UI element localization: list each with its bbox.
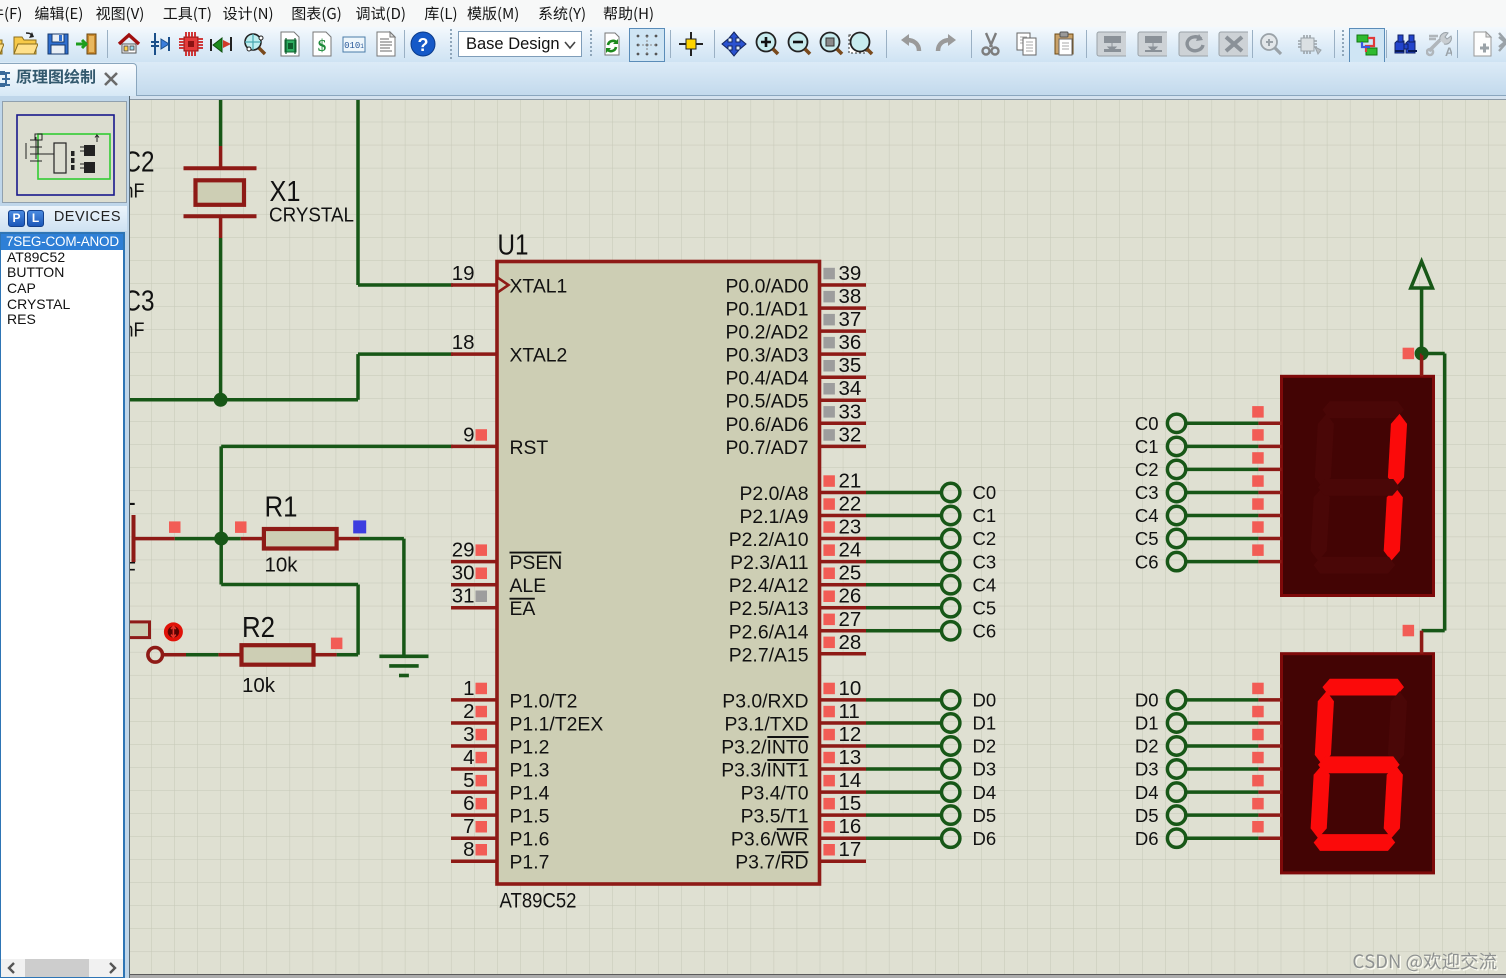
pin 19 (XTAL1) [451,283,497,287]
svg-text:26: 26 [839,585,862,608]
pin 17 [820,859,867,863]
resistor R2 [314,653,337,657]
wire + terminal C2 (chip side) [866,537,942,541]
svg-text:XTAL2: XTAL2 [510,345,568,367]
wire + terminal C5 (chip side) [866,606,942,610]
wire + terminal D5 (chip side) [866,813,942,817]
node: crystal / XTAL2 junction [214,393,228,407]
svg-text:C5: C5 [1135,528,1159,549]
svg-text:P2.4/A12: P2.4/A12 [729,575,809,597]
svg-text:16: 16 [839,815,862,838]
svg-text:P2.7/A15: P2.7/A15 [729,644,809,666]
svg-text:12: 12 [839,723,862,746]
svg-text:38: 38 [839,285,862,308]
pin 4 (P1.3) [451,767,497,771]
pin 30 (ALE) [451,583,497,587]
svg-text:nF: nF [124,180,145,203]
overline EA [510,598,535,600]
pin 21 [820,491,867,495]
wire + terminal D3 (chip side) [866,767,942,771]
pin 11 [820,721,867,725]
svg-text:C6: C6 [1135,551,1159,572]
pin 36 [820,352,867,356]
svg-text:C2: C2 [973,528,997,549]
svg-text:27: 27 [839,608,862,631]
pin 38 [820,306,867,310]
svg-text:11: 11 [839,700,860,723]
svg-text:P2.0/A8: P2.0/A8 [740,483,809,505]
svg-text:D3: D3 [1135,759,1159,780]
wire: net XTAL1 vertical from top edge [356,96,360,285]
pin 32 [820,445,867,449]
svg-text:D0: D0 [1135,690,1159,711]
svg-text:25: 25 [839,562,862,585]
svg-text:RST: RST [510,437,549,459]
svg-text:P0.7/AD7: P0.7/AD7 [726,437,809,459]
svg-text:10k: 10k [265,554,299,577]
svg-text:21: 21 [839,470,862,493]
svg-text:D2: D2 [973,736,997,757]
wire + terminal D4 (chip side) [866,790,942,794]
wire: power to DS2 [1422,352,1445,356]
svg-text:24: 24 [839,539,862,562]
svg-text:7: 7 [463,815,474,838]
svg-text:P0.6/AD6: P0.6/AD6 [726,414,809,436]
pin 39 [820,283,867,287]
svg-text:19: 19 [452,262,475,285]
svg-text:15: 15 [839,792,862,815]
pin 16 [820,836,867,840]
pin 22 [820,514,867,518]
tab bar [0,62,1506,96]
svg-text:8: 8 [463,838,474,861]
svg-text:P2.2/A10: P2.2/A10 [729,529,809,551]
pin 18 (XTAL2) [451,352,497,356]
menu bar [0,0,1506,27]
svg-text:C5: C5 [973,597,997,618]
overline PSEN [510,552,562,554]
svg-text:D1: D1 [973,713,997,734]
svg-text:30: 30 [452,562,475,585]
wire: RST junction down/right to R2 [219,539,223,585]
svg-text:uF: uF [112,558,136,581]
svg-text:9: 9 [463,423,474,446]
svg-text:32: 32 [839,423,862,446]
overline INT0 [767,736,808,738]
svg-text:ALE: ALE [510,575,547,597]
pin 13 [820,767,867,771]
pin 24 [820,560,867,564]
wire + terminal C6 (chip side) [866,629,942,633]
pin 27 [820,629,867,633]
wire: RST net from pin 9 [221,445,453,449]
pin 33 [820,422,867,426]
wire: C1 to RST junction [175,537,241,541]
svg-text:AT89C52: AT89C52 [500,890,577,913]
power terminal (up arrow) [1411,262,1433,289]
node: RST junction [214,532,228,546]
svg-text:3: 3 [463,723,474,746]
svg-text:P1.6: P1.6 [510,829,550,851]
pin 15 [820,813,867,817]
pin 25 [820,583,867,587]
toolbar [0,27,1506,62]
svg-text:23: 23 [839,516,862,539]
svg-text:EA: EA [510,598,536,620]
svg-text:6: 6 [463,792,474,815]
wire: R1 to ground [360,537,404,541]
schematic editor canvas [129,96,1506,99]
pin 9 (RST) [451,445,497,449]
pin 10 [820,698,867,702]
svg-text:29: 29 [452,539,475,562]
resistor R1 [235,521,247,533]
svg-text:D5: D5 [973,805,997,826]
pin 8 (P1.7) [451,859,497,863]
pin 5 (P1.4) [451,790,497,794]
svg-text:28: 28 [839,631,862,654]
svg-text:P3.7/RD: P3.7/RD [735,852,808,874]
svg-text:P1.7: P1.7 [510,852,550,874]
wire: XTAL1 horizontal into pin 19 [358,283,453,287]
svg-text:5: 5 [463,769,474,792]
svg-text:33: 33 [839,400,862,423]
terminal (input) at R2 left [164,653,187,657]
svg-text:P3.1/TXD: P3.1/TXD [724,714,808,736]
svg-text:PSEN: PSEN [510,552,563,574]
pin: DS2 common anode [1420,631,1424,654]
wire: crystal top net vertical from top edge [219,96,223,146]
7-segment display DS1 (digit 1) [1282,376,1434,595]
overline WR [777,828,809,830]
svg-text:P0.4/AD4: P0.4/AD4 [726,368,809,390]
svg-text:P1.1/T2EX: P1.1/T2EX [510,714,604,736]
button (partially hidden at edge) [118,622,150,638]
svg-text:P3.2/INT0: P3.2/INT0 [721,737,809,759]
svg-text:P2.1/A9: P2.1/A9 [740,506,809,528]
wire: crystal bottom to junction [219,238,223,400]
wire + terminal D6 (chip side) [866,836,942,840]
svg-text:D6: D6 [1135,828,1159,849]
svg-text:nF: nF [124,319,145,342]
svg-text:1: 1 [463,677,474,700]
svg-text:P1.2: P1.2 [510,737,550,759]
svg-text:D5: D5 [1135,805,1159,826]
wire + terminal C4 (chip side) [866,583,942,587]
pin 7 (P1.6) [451,836,497,840]
svg-text:D1: D1 [1135,713,1159,734]
overline RD [781,851,808,853]
wire: R2 to terminal [186,653,218,657]
svg-text:D2: D2 [1135,736,1159,757]
svg-text:C3: C3 [1135,482,1159,503]
pin 37 [820,329,867,333]
pin 3 (P1.2) [451,744,497,748]
wire: horizontal net to left edge [129,398,358,402]
svg-text:31: 31 [452,585,475,608]
svg-text:P3.0/RXD: P3.0/RXD [722,690,808,712]
svg-text:R2: R2 [242,612,275,644]
pin 31 (EA) [451,606,497,610]
svg-text:P3.3/INT1: P3.3/INT1 [721,760,808,782]
svg-text:P2.3/A11: P2.3/A11 [730,552,808,574]
wire + terminal D2 (chip side) [866,744,942,748]
op-amp/mcu U1 AT89C52 body [497,262,820,885]
svg-text:C2: C2 [1135,459,1159,480]
svg-text:17: 17 [839,838,862,861]
svg-text:C3: C3 [973,551,997,572]
svg-text:P3.4/T0: P3.4/T0 [741,783,809,805]
pin 6 (P1.5) [451,813,497,817]
svg-text:P1.3: P1.3 [510,760,550,782]
svg-text:P0.5/AD5: P0.5/AD5 [726,391,809,413]
svg-text:C6: C6 [973,621,997,642]
svg-text:P1.0/T2: P1.0/T2 [510,690,578,712]
svg-text:C1: C1 [973,505,997,526]
svg-text:39: 39 [839,262,862,285]
pin 12 [820,744,867,748]
svg-text:P0.1/AD1: P0.1/AD1 [726,299,809,321]
svg-text:XTAL1: XTAL1 [510,276,568,298]
svg-text:P0.0/AD0: P0.0/AD0 [726,276,809,298]
svg-text:D0: D0 [973,690,997,711]
svg-text:P3.5/T1: P3.5/T1 [741,806,809,828]
wire: up and into pin 18 XTAL2 [356,354,360,400]
svg-text:13: 13 [839,746,862,769]
pin 14 [820,790,867,794]
svg-text:10: 10 [839,677,862,700]
svg-text:37: 37 [839,308,862,331]
crystal X1 [219,146,223,169]
bottom scrollbar strip [129,974,1506,978]
svg-text:D4: D4 [1135,782,1159,803]
svg-text:D4: D4 [973,782,997,803]
svg-text:R1: R1 [265,492,298,524]
svg-text:C1: C1 [1135,436,1159,457]
wire + terminal C1 (chip side) [866,514,942,518]
wire + terminal C0 (chip side) [866,491,942,495]
pin 28 [820,652,867,656]
svg-text:36: 36 [839,331,862,354]
svg-text:14: 14 [839,769,862,792]
pin 2 (P1.1/T2EX) [451,721,497,725]
wire + terminal D0 (chip side) [866,698,942,702]
svg-text:22: 22 [839,493,862,516]
svg-text:34: 34 [839,377,862,400]
pin 35 [820,375,867,379]
watermark [1355,954,1498,973]
svg-text:P2.6/A14: P2.6/A14 [729,621,809,643]
svg-text:P1.4: P1.4 [510,783,550,805]
ground [379,654,428,658]
svg-text:4: 4 [463,746,474,769]
svg-text:2: 2 [463,700,474,723]
svg-text:35: 35 [839,354,862,377]
svg-text:CRYSTAL: CRYSTAL [269,204,354,227]
pin: DS1 common anode [1420,354,1424,377]
svg-text:U1: U1 [498,230,529,262]
node: power junction [1415,347,1429,361]
svg-text:P0.3/AD3: P0.3/AD3 [726,345,809,367]
svg-text:18: 18 [452,331,475,354]
pin 26 [820,606,867,610]
svg-text:P2.5/A13: P2.5/A13 [729,598,809,620]
svg-text:D3: D3 [973,759,997,780]
svg-text:C0: C0 [1135,413,1159,434]
svg-text:P3.6/WR: P3.6/WR [731,829,809,851]
overline INT1 [767,759,808,761]
wire + terminal D1 (chip side) [866,721,942,725]
wire + terminal C3 (chip side) [866,560,942,564]
svg-text:10k: 10k [242,674,276,697]
svg-text:P1.5: P1.5 [510,806,550,828]
pin 29 (PSEN) [451,560,497,564]
pin 1 (P1.0/T2) [451,698,497,702]
7-segment display DS2 (digit 6) [1282,654,1434,873]
svg-text:C4: C4 [1135,505,1159,526]
svg-text:C4: C4 [973,574,997,595]
svg-text:C0: C0 [973,482,997,503]
pin 34 [820,398,867,402]
svg-text:P0.2/AD2: P0.2/AD2 [726,322,809,344]
pin 23 [820,537,867,541]
svg-text:D6: D6 [973,828,997,849]
